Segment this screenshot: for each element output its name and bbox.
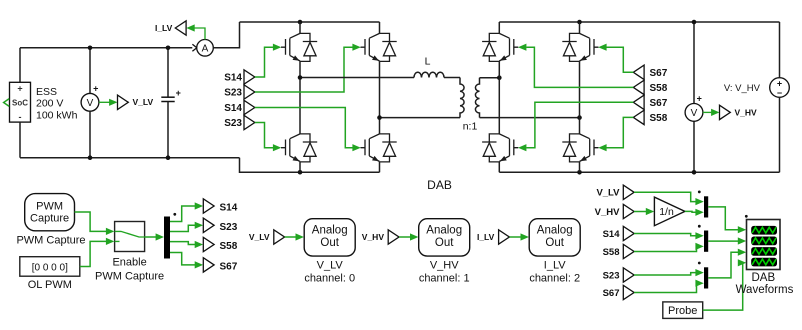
wire: battery bottom lead [19,122,21,158]
gate arrow leg2 bottom [352,144,360,151]
svg-text:V: V [691,108,698,119]
demux [164,217,170,259]
svg-text:PWM Capture: PWM Capture [95,270,164,282]
wire: PWM Capture to switch [75,212,115,235]
from tag S58 (right bridge, y=87.4) [633,80,644,94]
wire: left bridge top rail [240,21,380,23]
svg-text:Analog: Analog [537,225,573,237]
svg-text:V_LV: V_LV [596,188,620,199]
ammeter A [197,40,214,57]
svg-text:+: + [697,94,702,104]
voltmeter V_LV branch bottom [89,111,91,158]
wire: left bridge leg1 vertical [299,22,301,172]
wire: V_HV measurement arrow [703,109,720,116]
svg-text:Enable: Enable [112,257,146,269]
scope DAB Waveforms [747,220,781,270]
gate arrow leg1 top [273,44,281,51]
wire: demux out to S67 [170,253,203,269]
wire: LV bottom rail [20,157,240,159]
wire: left bridge leg2 vertical [379,22,381,172]
junction: leg1 midpoint [298,75,303,80]
gate arrow leg2 bottom (right) [598,144,606,151]
IGBT leg2 bottom (left bridge) [361,134,397,162]
wire: dc source leads [779,22,781,172]
from tag S14 (left bridge, y=107.5) [244,100,255,114]
sample time dot (demux) [173,213,176,216]
IGBT leg1 top (left bridge) [281,33,317,61]
svg-text:S58: S58 [650,113,668,124]
svg-text:S58: S58 [650,83,668,94]
svg-text:DAB: DAB [427,178,452,192]
IGBT leg2 bottom (right bridge) [562,134,598,162]
svg-text:L: L [425,56,431,68]
transformer primary winding [460,78,464,118]
block: Analog Out (I_LV) [529,219,580,256]
IGBT leg1 bottom (right bridge) [482,134,518,162]
label: Enable PWM Capture [95,257,164,283]
svg-text:S14: S14 [220,203,238,214]
wire: demux out to S23 [170,222,203,232]
goto tag S58 (demux out) [203,237,214,251]
wire: S67 to mux3 [634,280,704,293]
svg-text:V_HV: V_HV [735,107,758,117]
from tag V_HV (analog row) [388,230,399,244]
svg-text:−: − [777,88,782,98]
wire: switch to demux [145,233,164,240]
from tag S67 (scope group) [623,285,634,299]
svg-text:S23: S23 [224,88,242,99]
wire: S58 to mux2 [634,243,704,252]
mux3 [704,267,708,288]
svg-text:S14: S14 [224,103,242,114]
svg-text:Capture: Capture [30,213,69,225]
junction: right leg2 top [577,20,582,25]
svg-text:V_HV: V_HV [595,207,620,218]
svg-text:-: - [19,112,22,122]
from tag S23 (scope group) [623,268,634,282]
junction: leg1 bottom [298,170,303,175]
voltmeter V_LV [81,84,99,112]
wire: mux1 to scope [708,207,746,233]
wire: demux out to S58 [170,241,203,248]
from tag S14 (scope group) [623,226,634,240]
transformer secondary winding [475,78,479,118]
svg-text:PWM Capture: PWM Capture [16,234,85,246]
wire: S58 to right leg2 bottom gate [607,117,634,147]
junction: V_HV branch bottom [692,170,697,175]
svg-text:S23: S23 [220,222,238,233]
wire: S67 to right leg1 bottom gate [526,102,633,147]
wire: battery top lead [19,48,21,83]
wire: primary bottom to leg2 midpoint [380,117,461,119]
svg-text:Waveforms: Waveforms [736,284,794,296]
svg-text:S23: S23 [603,270,620,281]
wire: V_LV to mux1 [634,192,704,205]
goto tag S14 (demux out) [203,199,214,213]
label: ESS 200 V 100 kWh [36,86,78,121]
svg-text:V_LV: V_LV [317,259,344,271]
capacitor C_LV [161,88,181,102]
battery ESS (with SoC port) [4,82,31,122]
wire: right bridge leg1 vertical [498,22,500,172]
wire: LV top rail [20,47,192,49]
from tag S58 (right bridge, y=117.4) [633,110,644,124]
dc source V_HV [770,78,790,98]
svg-text:V: V [87,98,94,109]
from tag V_HV (scope group) [623,204,634,218]
junction: right leg2 bottom [577,170,582,175]
IGBT leg2 top (right bridge) [562,33,598,61]
svg-text:Analog: Analog [426,225,462,237]
wire: S23 to leg1 bottom gate [255,123,273,148]
svg-text:channel: 2: channel: 2 [529,272,580,284]
wire: V_HV branch [693,22,695,172]
IGBT leg2 top (left bridge) [361,33,397,61]
wire: demux out to S14 [170,202,203,221]
svg-text:V_HV: V_HV [362,232,385,242]
svg-text:Out: Out [320,237,339,249]
svg-text:Out: Out [435,237,454,249]
wire: Probe to scope [703,259,747,310]
from tag I_LV (analog row) [499,230,510,244]
wire: gain to mux1 [685,209,704,216]
svg-text:S67: S67 [650,68,668,79]
svg-text:ESS: ESS [36,86,57,98]
wire: V_LV measurement arrow [99,99,118,106]
block: OL PWM constant [20,257,80,277]
wire: I_LV to Analog Out [509,233,529,240]
voltmeter V_HV [685,94,703,122]
svg-text:V_HV: V_HV [430,259,459,271]
wire: S14 to mux2 [634,232,704,239]
svg-text:V_LV: V_LV [249,232,270,242]
IGBT leg1 top (right bridge) [482,33,518,61]
wire: right bridge leg2 vertical [579,22,581,172]
gate arrow leg2 top (right) [598,44,606,51]
svg-text:100 kWh: 100 kWh [36,109,78,121]
svg-text:n:1: n:1 [463,121,478,133]
junction: leg2 midpoint [377,115,382,120]
svg-text:A: A [202,44,209,55]
wire: S23 to leg2 top gate [255,47,353,92]
wire: leg1 midpoint to inductor [300,77,414,79]
junction: capacitor bottom [166,155,171,160]
wire: right bridge bottom rail [499,171,779,173]
wire: secondary top lead to leg1 mid [480,77,500,79]
sample time dot (mux3) [698,262,701,265]
svg-text:Analog: Analog [312,225,348,237]
from tag S67 (right bridge, y=102.3) [633,95,644,109]
svg-text:S14: S14 [224,73,242,84]
goto tag I_LV [175,21,186,35]
mux2 [704,231,708,252]
gain 1/n [654,197,685,226]
from tag S23 (left bridge, y=92) [244,85,255,99]
wire: V_LV to Analog Out [285,233,304,240]
gate arrow leg1 bottom (right) [518,144,526,151]
wire: mux2 to scope [708,237,746,244]
wire: S67 to right leg2 top gate [607,47,634,72]
sample time dot (mux2) [698,225,701,228]
from tag S58 (scope group) [623,244,634,258]
block: Probe [663,302,703,319]
junction: V_HV branch top [692,20,697,25]
wire: I_LV tap [186,24,205,39]
label: DAB Waveforms [736,272,794,296]
capacitor branch top [167,48,169,97]
wire: S23 to mux3 [634,269,704,276]
wire: inductor to transformer primary [444,77,460,79]
svg-text:I_LV: I_LV [477,232,495,242]
from tag S67 (right bridge, y=72.3) [633,65,644,79]
svg-text:V_LV: V_LV [133,97,154,107]
wire: S58 to right leg1 top gate [526,47,633,87]
wire: LV bottom step [240,158,380,173]
label: V_HV / channel: 1 [419,259,470,284]
wire: mux3 to scope [708,249,746,278]
wire: V_HV to Analog Out [399,233,418,240]
sample time dot (scope) [745,215,748,218]
ammeter current direction arrow [192,44,196,51]
gate arrow leg2 top [352,44,360,51]
svg-text:I_LV: I_LV [155,23,173,33]
wire: right bridge top rail [499,21,779,23]
IGBT leg1 bottom (left bridge) [281,134,317,162]
from tag V_LV (scope group) [623,185,634,199]
svg-text:S67: S67 [603,288,620,299]
svg-text:I_LV: I_LV [544,259,566,271]
svg-text:OL PWM: OL PWM [28,279,72,291]
wire: OL PWM to switch [80,238,115,267]
wire: ammeter to bridge riser [213,22,239,48]
junction: capacitor top [166,46,171,51]
label: I_LV / channel: 2 [529,259,580,284]
svg-text:channel: 0: channel: 0 [304,272,355,284]
mux1 [704,196,708,217]
svg-text:+: + [17,84,22,94]
svg-text:Out: Out [545,237,564,249]
from tag S14 (left bridge, y=77) [244,70,255,84]
block: PWM Capture [25,194,75,231]
label: V_LV / channel: 0 [304,259,355,284]
svg-text:DAB: DAB [751,272,775,284]
voltmeter V_LV branch top [89,48,91,94]
block: Analog Out (V_LV) [304,219,355,256]
block: Analog Out (V_HV) [419,219,470,256]
svg-text:[0 0 0 0]: [0 0 0 0] [32,262,68,273]
junction: right leg1 midpoint [497,75,502,80]
svg-text:+: + [93,84,98,94]
capacitor branch bottom [167,102,169,158]
goto tag S67 (demux out) [203,258,214,272]
wire: S14 to leg1 top gate [255,47,273,77]
svg-text:S23: S23 [224,118,242,129]
svg-text:S67: S67 [220,262,238,273]
gate arrow leg1 top (right) [518,44,526,51]
wire: secondary bottom lead to leg2 mid [480,117,580,119]
svg-text:SoC: SoC [12,99,28,108]
sample time dot (mux1) [698,191,701,194]
svg-text:S58: S58 [603,247,620,258]
svg-text:V: V_HV: V: V_HV [724,83,761,94]
svg-text:Probe: Probe [668,305,697,317]
junction: leg1 top [298,20,303,25]
from tag S23 (left bridge, y=122.5) [244,115,255,129]
svg-text:S14: S14 [603,229,621,240]
junction: voltmeter bottom [88,155,93,160]
svg-text:200 V: 200 V [36,98,63,110]
goto tag V_HV (voltmeter) [720,105,731,119]
inductor L [414,72,444,77]
goto tag V_LV (voltmeter) [118,95,129,109]
svg-text:channel: 1: channel: 1 [419,272,470,284]
goto tag S23 (demux out) [203,218,214,232]
wire: S14 to leg2 bottom gate [255,108,353,148]
junction: right leg2 midpoint [577,115,582,120]
svg-text:S67: S67 [650,98,668,109]
from tag V_LV (analog row) [274,230,285,244]
svg-text:PWM: PWM [36,200,63,212]
gate arrow leg1 bottom [273,144,281,151]
wire: V_HV to gain [634,208,654,215]
junction: voltmeter top [88,46,93,51]
svg-text:+: + [176,88,181,98]
block: Enable PWM Capture switch [115,222,145,252]
svg-text:S58: S58 [220,241,238,252]
svg-text:1/n: 1/n [659,206,674,218]
